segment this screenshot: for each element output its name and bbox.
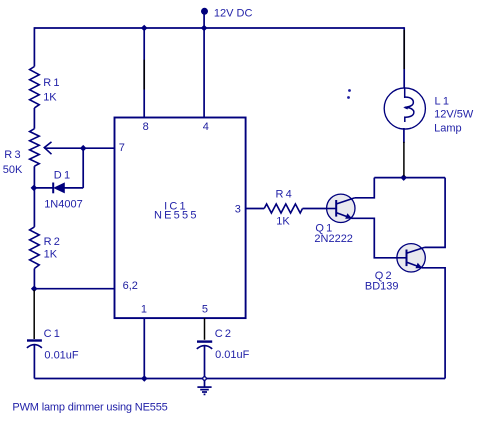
resistor R4 — [264, 204, 302, 213]
svg-text:0.01uF: 0.01uF — [215, 349, 250, 361]
svg-text:7: 7 — [119, 142, 125, 154]
stray dots artifact — [347, 89, 351, 99]
svg-text:1K: 1K — [43, 91, 57, 103]
svg-text:1K: 1K — [44, 248, 58, 260]
wire pin 1 to bottom rail — [143, 318, 145, 378]
svg-text:C2: C2 — [215, 328, 233, 340]
node open circle at ground — [201, 375, 208, 382]
R3 wiper arrow — [44, 142, 51, 154]
label Q2 BD139 — [365, 270, 399, 292]
wire pin 5 to C2 (black) — [204, 318, 206, 340]
label R1 1K — [43, 77, 61, 104]
wire wiper junction down to diode — [82, 148, 84, 188]
wire pin 8 black overpaint — [143, 60, 145, 90]
svg-text:NE555: NE555 — [154, 209, 199, 221]
potentiometer R3 — [30, 129, 40, 167]
wire pin 4 — [203, 28, 205, 118]
svg-text:5: 5 — [202, 303, 208, 315]
svg-text:2N2222: 2N2222 — [314, 233, 353, 245]
wire top rail — [34, 27, 404, 29]
wire Q1 collector up — [355, 178, 374, 198]
wire top rail right corner down to lamp — [403, 27, 405, 88]
svg-text:Lamp: Lamp — [434, 123, 462, 135]
svg-text:R1: R1 — [43, 77, 61, 89]
wire junction down to C1 (black segment) — [33, 290, 35, 339]
ground symbol — [197, 381, 211, 395]
junction dot R2/pin6,2 — [31, 285, 38, 292]
IC U1 NE555 box — [115, 118, 246, 319]
wire left column top — [33, 27, 35, 66]
svg-text:1N4007: 1N4007 — [44, 198, 83, 210]
svg-text:1: 1 — [141, 303, 147, 315]
label C2 0.01uF — [215, 328, 250, 361]
svg-text:4: 4 — [203, 121, 209, 133]
label IC1 NE555 — [154, 200, 199, 221]
svg-text:8: 8 — [143, 121, 149, 133]
svg-text:0.01uF: 0.01uF — [44, 349, 79, 361]
wire collector junction rail — [374, 177, 445, 179]
capacitor C2 — [197, 342, 212, 379]
svg-text:L1: L1 — [435, 95, 452, 107]
wire R4 to Q1 base — [303, 208, 327, 210]
wire R2 bottom to junction — [33, 269, 35, 289]
wire R1 to R3 — [33, 108, 35, 129]
wire pin 3 to R4 — [246, 208, 265, 210]
svg-text:12V/5W: 12V/5W — [434, 109, 474, 121]
wire black overpaint above lamp — [403, 30, 405, 69]
svg-text:R4: R4 — [276, 188, 294, 200]
junction dot top rail at 12V column — [201, 25, 208, 32]
label C1 0.01uF — [44, 328, 79, 361]
svg-text:12V DC: 12V DC — [214, 7, 253, 19]
transistor Q2 — [397, 244, 425, 272]
resistor R2 — [30, 227, 40, 269]
junction dot diode left — [31, 185, 38, 192]
diode D1 — [34, 183, 83, 194]
wire lamp bottom (black part) — [403, 142, 405, 176]
wire Q1 emitter to Q2 base — [351, 218, 397, 257]
svg-text:1K: 1K — [276, 215, 290, 227]
wire lamp bottom (navy part) — [403, 128, 405, 143]
capacitor C1 — [27, 341, 42, 379]
node 12V DC terminal — [201, 8, 208, 28]
resistor R1 — [30, 67, 40, 108]
lamp L1 — [384, 88, 425, 129]
wire Q2 emitter down to bottom rail — [422, 268, 445, 379]
svg-text:D1: D1 — [54, 169, 72, 181]
wire bottom rail — [34, 378, 445, 380]
junction dot lamp/collectors — [400, 174, 407, 181]
svg-text:BD139: BD139 — [365, 280, 399, 292]
svg-text:6,2: 6,2 — [123, 280, 138, 292]
label L1 12V/5W Lamp — [434, 95, 474, 134]
svg-text:PWM lamp dimmer using NE555: PWM lamp dimmer using NE555 — [12, 402, 167, 414]
svg-text:C1: C1 — [44, 328, 62, 340]
junction dot wiper branch — [80, 145, 87, 152]
wire R3 bottom to R2 top — [33, 166, 35, 227]
svg-text:R3: R3 — [4, 149, 22, 161]
wire pin 8 — [143, 28, 145, 118]
label D1 1N4007 — [44, 169, 83, 210]
label R3 50K — [3, 149, 23, 176]
svg-text:50K: 50K — [3, 164, 23, 176]
wire junction to pin 6,2 — [34, 288, 114, 290]
wire wiper to pin 7 — [44, 147, 114, 149]
wire right vertical to Q2 collector — [425, 178, 446, 248]
junction dot bottom rail pin1 — [141, 375, 148, 382]
label R4 1K — [276, 188, 294, 227]
transistor Q1 — [327, 194, 355, 222]
junction dot top rail at pin8 column — [141, 25, 148, 32]
svg-text:3: 3 — [235, 203, 241, 215]
label R2 1K — [44, 236, 62, 260]
label Q1 2N2222 — [314, 222, 353, 245]
svg-text:R2: R2 — [44, 236, 62, 248]
